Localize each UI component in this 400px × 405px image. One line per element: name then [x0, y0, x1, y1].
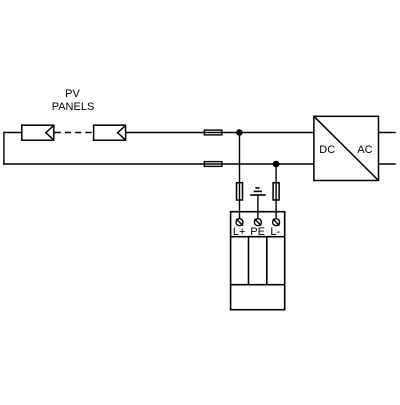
SPD surge protective device body: [231, 212, 285, 310]
svg-text:L+: L+: [233, 226, 246, 238]
ground symbol (earth, pointing up): [250, 188, 265, 195]
terminal PE (screw): [254, 219, 261, 226]
fuse F3 on L+ drop: [237, 183, 243, 200]
wire top (L+) from panel 2 to inverter: [126, 132, 314, 134]
node junction dot bottom (L-): [273, 161, 280, 168]
wire top-left segment to panel 1: [4, 132, 22, 134]
node junction dot top (L+): [236, 129, 243, 136]
svg-text:PV: PV: [65, 88, 80, 100]
wire L- drop to SPD: [275, 164, 277, 222]
terminal L- (screw): [273, 219, 280, 226]
inverter U1 DC/AC converter: [314, 116, 379, 180]
wire AC output top: [379, 132, 396, 134]
svg-text:PE: PE: [250, 226, 265, 238]
wire left vertical return: [3, 132, 5, 165]
svg-text:PANELS: PANELS: [52, 101, 95, 113]
PV panel 1: [22, 125, 54, 140]
wire bottom (L-) from left loop to inverter: [3, 163, 314, 165]
fuse F1 on top wire: [204, 130, 222, 135]
svg-text:DC: DC: [319, 144, 335, 156]
fuse F4 on L- drop: [273, 183, 279, 200]
svg-text:L-: L-: [270, 226, 280, 238]
wire PE stem from ground symbol: [257, 195, 259, 222]
wire L+ drop to SPD: [239, 133, 241, 223]
terminal L+ (screw): [236, 219, 243, 226]
PV panel 2: [94, 125, 126, 140]
svg-text:AC: AC: [357, 144, 372, 156]
fuse F2 on bottom wire: [204, 162, 222, 167]
wire dashed between panels: [55, 132, 94, 134]
wire AC output bottom: [379, 163, 396, 165]
